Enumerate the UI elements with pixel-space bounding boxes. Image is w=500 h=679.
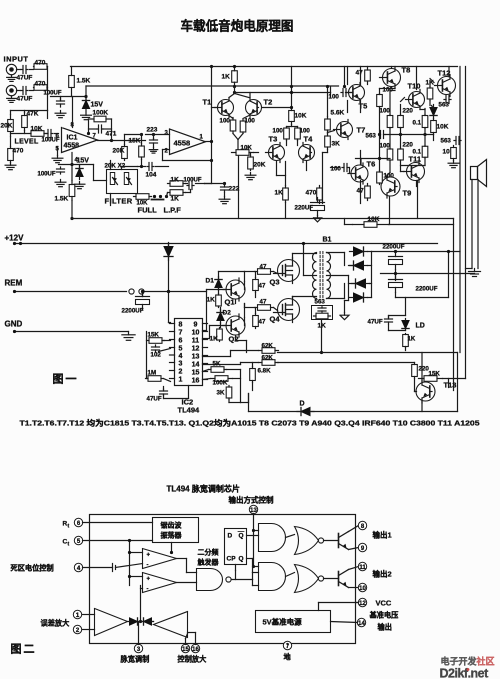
svg-text:1K: 1K <box>207 297 216 304</box>
svg-text:1K: 1K <box>171 177 180 184</box>
svg-text:2200UF: 2200UF <box>122 308 144 315</box>
svg-text:47: 47 <box>356 70 364 77</box>
svg-text:220: 220 <box>403 108 414 115</box>
svg-text:T10: T10 <box>408 82 421 91</box>
svg-text:3: 3 <box>179 360 183 367</box>
svg-text:3K: 3K <box>332 141 341 148</box>
svg-text:3K: 3K <box>217 390 225 397</box>
svg-text:100: 100 <box>329 94 340 101</box>
svg-text:100K: 100K <box>213 380 228 387</box>
svg-text:TL494 脉宽调制芯片: TL494 脉宽调制芯片 <box>167 484 240 494</box>
svg-text:15V: 15V <box>91 102 104 109</box>
svg-text:FULL: FULL <box>138 206 158 215</box>
svg-text:-: - <box>147 587 149 593</box>
svg-text:T13: T13 <box>444 381 457 390</box>
svg-text:10: 10 <box>443 149 451 156</box>
svg-text:输出2: 输出2 <box>373 569 392 579</box>
svg-text:Q1: Q1 <box>225 298 235 307</box>
svg-text:104: 104 <box>146 172 157 179</box>
svg-text:图一: 图一 <box>53 373 79 386</box>
svg-text:T1: T1 <box>203 98 212 107</box>
svg-text:47UF: 47UF <box>17 96 33 103</box>
svg-text:4558: 4558 <box>64 143 80 150</box>
svg-text:Q3: Q3 <box>270 278 280 287</box>
svg-text:+12V: +12V <box>5 234 25 243</box>
svg-text:1.5K: 1.5K <box>77 78 91 85</box>
svg-text:INPUT: INPUT <box>4 55 29 64</box>
svg-text:15K: 15K <box>148 332 160 339</box>
svg-text:15K: 15K <box>129 138 141 145</box>
svg-text:GND: GND <box>5 320 23 329</box>
svg-text:脉宽调制: 脉宽调制 <box>120 655 150 664</box>
svg-text:100: 100 <box>220 118 231 125</box>
svg-text:15K: 15K <box>429 371 441 378</box>
svg-text:T9: T9 <box>403 189 412 198</box>
svg-text:社区: 社区 <box>476 656 495 667</box>
svg-text:输出1: 输出1 <box>373 530 392 540</box>
svg-text:223: 223 <box>147 127 158 134</box>
svg-text:Q: Q <box>239 533 244 540</box>
svg-text:471: 471 <box>106 131 117 138</box>
svg-text:47UF: 47UF <box>147 396 162 403</box>
svg-text:470: 470 <box>306 190 317 197</box>
svg-text:地: 地 <box>284 653 292 662</box>
svg-text:1.5K: 1.5K <box>55 196 69 203</box>
svg-text:5V基准电源: 5V基准电源 <box>263 617 303 627</box>
svg-text:14: 14 <box>358 621 365 627</box>
svg-text:二分频: 二分频 <box>198 548 219 557</box>
svg-text:Q: Q <box>239 556 244 563</box>
svg-text:FILTER: FILTER <box>105 197 133 206</box>
svg-text:47: 47 <box>260 264 267 271</box>
svg-text:10: 10 <box>192 329 200 336</box>
svg-text:47: 47 <box>259 283 266 290</box>
svg-text:20K: 20K <box>113 148 125 155</box>
svg-text:10K: 10K <box>437 124 449 131</box>
svg-text:62K: 62K <box>262 343 274 350</box>
svg-text:100K: 100K <box>93 110 109 117</box>
svg-text:8: 8 <box>179 321 183 328</box>
svg-text:47: 47 <box>259 319 266 326</box>
svg-text:车载低音炮电原理图: 车载低音炮电原理图 <box>181 19 294 34</box>
svg-text:10K: 10K <box>295 113 307 120</box>
svg-text:TL494: TL494 <box>178 406 201 415</box>
svg-text:563: 563 <box>315 299 326 306</box>
svg-text:47: 47 <box>260 299 267 306</box>
svg-text:误差放大: 误差放大 <box>41 619 71 628</box>
svg-text:Q4: Q4 <box>270 315 281 324</box>
svg-text:10K: 10K <box>31 126 43 133</box>
svg-text:B1: B1 <box>323 237 332 244</box>
svg-text:20K: 20K <box>254 162 266 169</box>
svg-text:T3: T3 <box>269 135 278 144</box>
svg-text:100: 100 <box>300 128 311 135</box>
svg-text:10: 10 <box>359 586 366 592</box>
svg-text:1K: 1K <box>408 337 416 343</box>
svg-text:100: 100 <box>380 108 391 115</box>
svg-text:13: 13 <box>192 353 200 360</box>
svg-text:输出: 输出 <box>378 623 392 632</box>
svg-text:IC1: IC1 <box>67 135 78 142</box>
svg-text:REM: REM <box>5 279 23 288</box>
svg-text:T6: T6 <box>367 160 376 169</box>
svg-text:6.8K: 6.8K <box>258 368 272 375</box>
svg-text:100UF: 100UF <box>44 91 62 97</box>
svg-text:D1: D1 <box>206 278 215 285</box>
svg-text:470: 470 <box>13 148 24 155</box>
svg-text:LEVEL: LEVEL <box>15 139 39 146</box>
svg-text:100: 100 <box>380 143 391 150</box>
svg-text:T4: T4 <box>304 135 314 144</box>
svg-text:100: 100 <box>331 166 342 173</box>
svg-text:VCC: VCC <box>376 599 392 608</box>
svg-text:15: 15 <box>192 369 200 376</box>
svg-text:470: 470 <box>35 81 46 88</box>
svg-text:11: 11 <box>359 565 366 571</box>
svg-text:5.6K: 5.6K <box>331 110 345 117</box>
svg-text:47K: 47K <box>27 111 39 118</box>
svg-text:102: 102 <box>151 352 162 359</box>
svg-text:振荡器: 振荡器 <box>161 531 183 540</box>
svg-text:-: - <box>147 563 149 569</box>
svg-text:47UF: 47UF <box>368 319 383 326</box>
svg-text:15V: 15V <box>77 158 90 165</box>
svg-text:1K: 1K <box>171 196 180 203</box>
svg-text:5K: 5K <box>213 361 221 368</box>
svg-text:死区电位控制: 死区电位控制 <box>11 564 54 573</box>
svg-text:1K: 1K <box>210 336 219 343</box>
svg-text:7: 7 <box>179 329 183 336</box>
svg-text:LD: LD <box>416 323 425 330</box>
svg-text:220: 220 <box>403 142 414 149</box>
svg-text:9: 9 <box>194 321 198 328</box>
svg-text:20K: 20K <box>1 123 13 130</box>
svg-text:563: 563 <box>366 133 377 140</box>
svg-text:12: 12 <box>192 345 200 352</box>
svg-text:D2: D2 <box>223 310 232 317</box>
svg-text:14: 14 <box>192 361 200 368</box>
svg-text:15: 15 <box>182 647 189 653</box>
svg-text:Q2: Q2 <box>229 335 239 344</box>
svg-text:基准电压: 基准电压 <box>369 611 400 620</box>
svg-text:D: D <box>228 533 233 540</box>
svg-text:2200UF: 2200UF <box>383 244 405 251</box>
svg-text:470: 470 <box>35 60 46 67</box>
svg-text:1M: 1M <box>148 370 157 377</box>
svg-text:47UF: 47UF <box>17 75 33 82</box>
svg-text:100: 100 <box>273 128 284 135</box>
svg-text:1K: 1K <box>222 74 231 81</box>
svg-text:控制放大: 控制放大 <box>178 655 208 664</box>
svg-text:0.1: 0.1 <box>413 120 422 127</box>
svg-text:0.1: 0.1 <box>413 149 422 156</box>
svg-text:D2ikf.net: D2ikf.net <box>440 667 490 679</box>
svg-text:2: 2 <box>179 368 183 375</box>
svg-text:4558: 4558 <box>174 139 191 148</box>
svg-text:12: 12 <box>359 601 366 607</box>
svg-text:T8: T8 <box>402 66 411 75</box>
svg-text:220UF: 220UF <box>295 205 314 212</box>
svg-text:T2: T2 <box>264 98 273 107</box>
svg-text:T7: T7 <box>357 126 366 135</box>
svg-text:T5: T5 <box>359 102 368 111</box>
svg-text:T11: T11 <box>409 155 422 164</box>
svg-text:10K: 10K <box>241 145 253 152</box>
svg-text:CP: CP <box>227 556 237 563</box>
svg-text:11: 11 <box>192 337 200 344</box>
svg-text:输出方式控制: 输出方式控制 <box>229 495 274 505</box>
svg-text:触发器: 触发器 <box>197 558 220 567</box>
svg-text:2200UF: 2200UF <box>416 286 438 293</box>
svg-text:100UF: 100UF <box>38 172 56 178</box>
svg-text:100UF: 100UF <box>184 178 202 184</box>
svg-text:100: 100 <box>245 118 256 125</box>
svg-text:6: 6 <box>179 337 183 344</box>
svg-text:16: 16 <box>192 647 199 653</box>
svg-text:5: 5 <box>179 345 183 352</box>
svg-text:+: + <box>147 553 151 559</box>
svg-text:16: 16 <box>192 377 200 384</box>
svg-text:D: D <box>300 401 305 408</box>
svg-text:1: 1 <box>179 376 183 383</box>
svg-text:图二: 图二 <box>11 643 37 656</box>
svg-text:1K: 1K <box>275 190 284 197</box>
svg-text:563: 563 <box>439 102 450 109</box>
svg-text:电子开发: 电子开发 <box>441 656 478 667</box>
svg-text:T1.T2.T6.T7.T12 均为C1815 T3.T4: T1.T2.T6.T7.T12 均为C1815 T3.T4.T5.T13. Q1… <box>20 419 480 428</box>
svg-text:4: 4 <box>179 353 183 360</box>
svg-text:锯齿波: 锯齿波 <box>161 521 183 530</box>
svg-text:+: + <box>147 577 151 583</box>
svg-text:L.P.F: L.P.F <box>164 206 182 215</box>
svg-text:563: 563 <box>441 138 452 145</box>
svg-text:62K: 62K <box>262 355 274 362</box>
